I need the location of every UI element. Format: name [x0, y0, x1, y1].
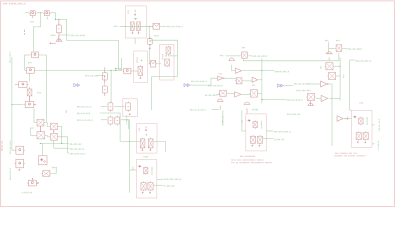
- caption line3: [231, 162, 271, 163]
- wire: [228, 92, 235, 94]
- net label TELCA_GN_PA_L: [10, 141, 11, 154]
- wire: [262, 99, 286, 101]
- inverter U2B: [321, 95, 328, 101]
- wire: [337, 75, 340, 77]
- wire: [53, 130, 55, 134]
- wire: [259, 79, 262, 81]
- resistor R7: [115, 116, 120, 126]
- transducer K4: [25, 68, 35, 74]
- capacitor C15: [235, 78, 243, 84]
- wire: [34, 109, 36, 123]
- module outline LED RECEIVER 3: [352, 110, 373, 147]
- capacitor C14: [165, 59, 170, 67]
- net label L_TEL_RE: [274, 139, 284, 140]
- wire: [249, 55, 252, 57]
- transistor Q1: [130, 22, 134, 32]
- wire: [121, 120, 128, 129]
- wire: net stubs to labels: [40, 142, 69, 144]
- wire: [153, 184, 163, 186]
- label TEL_TO_SELF: [71, 35, 85, 36]
- wire: [149, 48, 150, 64]
- wire: [261, 58, 263, 103]
- coupler X1 envelope: [152, 24, 161, 30]
- net label TRL: [345, 118, 348, 119]
- module port flag: [74, 84, 80, 87]
- supply bell: [308, 103, 314, 106]
- net label L_TEL_RE: [164, 185, 174, 186]
- transducer K5: [24, 102, 35, 108]
- net label TEL_TL_WKL_L: [294, 83, 310, 84]
- wire: [45, 123, 49, 127]
- wire: [42, 143, 44, 155]
- antenna mark: [134, 10, 136, 16]
- supply bell: [326, 52, 333, 55]
- wire: [46, 136, 49, 137]
- wire: [116, 69, 122, 71]
- transducer K3: [30, 52, 40, 58]
- resistor R3: [58, 19, 60, 25]
- net label TEL_TL_SELF: [347, 48, 361, 49]
- resistor R10: [148, 37, 153, 46]
- net label PFGB: [144, 156, 149, 157]
- net name vertical: [379, 119, 380, 131]
- inverter U1D: [235, 92, 241, 97]
- wire: [101, 105, 107, 107]
- wire: [349, 60, 351, 110]
- wire: [12, 104, 14, 150]
- wire: [51, 13, 122, 70]
- net label CON: [336, 40, 339, 41]
- resistor R6: [108, 116, 113, 126]
- wire: [129, 120, 131, 193]
- wire: [196, 78, 218, 85]
- wire: [153, 141, 165, 152]
- wire: [232, 65, 236, 71]
- pin header outline: [123, 99, 138, 117]
- wire: [328, 84, 332, 116]
- module outline SPEAKER DRIVER: [125, 6, 146, 38]
- net label TELCA_PA_L: [10, 168, 11, 180]
- wire: [25, 12, 29, 14]
- wire: [316, 97, 321, 99]
- module port flag: [277, 84, 283, 87]
- wire: [329, 97, 340, 99]
- wire: [226, 55, 241, 57]
- supply bell: [244, 102, 251, 105]
- wire: [148, 26, 150, 38]
- net label TEL_E_A_HH_L: [77, 119, 93, 120]
- capacitor C9: [49, 123, 58, 130]
- inverter U1A: [235, 68, 241, 73]
- wire: [110, 71, 112, 103]
- wire: [100, 113, 120, 141]
- net label TEL_TL_SELF: [253, 55, 267, 56]
- label S8B: [114, 26, 117, 27]
- coupler X2 envelope: [149, 61, 157, 67]
- wire: [372, 143, 375, 145]
- wire: [40, 55, 46, 123]
- transducer K7: [15, 159, 25, 168]
- wire: [133, 70, 139, 72]
- wire: [344, 118, 352, 120]
- frame column text: [1, 141, 2, 151]
- net label SEL: [220, 55, 223, 56]
- net label TEL_TL_WKL_L: [191, 81, 207, 82]
- inverter U1C: [252, 77, 258, 82]
- module text: [139, 128, 140, 131]
- wire: [263, 138, 274, 140]
- wire: [284, 85, 293, 87]
- wire: [11, 57, 13, 104]
- resistor R5: [126, 102, 131, 112]
- label CON: [242, 47, 245, 48]
- net label TEL_TL_WKL: [85, 75, 98, 76]
- net label TEL_AF_WT_A: [70, 148, 84, 149]
- label S8B: [37, 92, 40, 93]
- wire: [350, 59, 355, 61]
- wire: [29, 96, 31, 102]
- transducer K2: [43, 11, 51, 16]
- net label TEL_CA_ALW: [77, 113, 90, 114]
- supply bell: [228, 58, 235, 61]
- wire: [266, 130, 273, 132]
- wire: [130, 169, 137, 171]
- caption LED RECEIVER: [240, 156, 255, 157]
- module outline LED RECEIVER 1: [136, 160, 157, 199]
- wire: [259, 92, 262, 94]
- wire: [29, 73, 31, 82]
- module title text: [128, 10, 129, 13]
- wire: [59, 126, 62, 143]
- label STOB: [51, 35, 56, 36]
- capacitor C8: [36, 119, 45, 126]
- wire: [128, 119, 129, 121]
- capacitor C7: [41, 171, 51, 177]
- wire: [31, 178, 33, 180]
- wire: [343, 48, 347, 50]
- transistor Q4: [148, 138, 153, 149]
- net label TEL_DF_HH vertical: [66, 110, 67, 113]
- net label TELCA_DER_A: [275, 71, 289, 72]
- net label TEL_DF_HN_L: [208, 85, 222, 86]
- wire: [157, 63, 161, 65]
- label S8B: [30, 21, 33, 22]
- junction: [146, 134, 147, 135]
- inverter U3A: [337, 116, 343, 122]
- wire: [168, 55, 178, 57]
- net label TEL_TLE_WT_A: [70, 153, 86, 154]
- wire: [307, 83, 321, 85]
- net label TEL_AF_WKL_A: [287, 99, 303, 100]
- label a_TEL_GN: [22, 192, 32, 193]
- connector X3: [241, 52, 249, 58]
- label THB: [219, 73, 222, 74]
- transducer K6: [15, 146, 25, 154]
- wire: [242, 93, 251, 95]
- net label TEL_REV_SEL: [296, 90, 310, 91]
- wire: [339, 58, 341, 101]
- capacitor C10: [36, 132, 46, 139]
- capacitor C16: [218, 90, 227, 96]
- wire: [243, 58, 339, 61]
- wire: [242, 70, 274, 72]
- wire: [39, 126, 41, 132]
- microphone M1: [17, 82, 28, 88]
- wire: [161, 25, 166, 27]
- label N2GB: [52, 167, 57, 168]
- transistor Q3: [140, 138, 145, 149]
- resistor R4: [108, 102, 113, 112]
- capacitor C4: [29, 87, 31, 89]
- capacitor C12: [138, 65, 143, 76]
- net label GND: [325, 40, 328, 41]
- module port flag: [184, 84, 190, 87]
- module text PULSE: [162, 54, 163, 59]
- wire: [151, 77, 153, 110]
- wire: [335, 65, 341, 67]
- label S8B: [28, 62, 31, 63]
- caption line1: [335, 153, 357, 154]
- wire: [338, 53, 340, 61]
- wire: [120, 25, 153, 27]
- wire: [46, 17, 48, 20]
- wire: [191, 84, 196, 86]
- wire: [114, 105, 124, 107]
- wire: [59, 137, 68, 153]
- wire: [31, 135, 36, 137]
- inverter U1B: [218, 76, 225, 81]
- wire: [134, 38, 136, 44]
- wire: [350, 109, 352, 111]
- net label TEL_CA_DEL_P: [355, 60, 371, 61]
- wire: [331, 116, 333, 146]
- wire: [120, 140, 140, 142]
- wire: [59, 33, 70, 36]
- transducer K1: [29, 11, 37, 16]
- transducer K8: [27, 180, 37, 186]
- capacitor C17: [249, 90, 258, 97]
- capacitor C18: [325, 63, 335, 70]
- buzzer LS1: [58, 35, 60, 41]
- wire: [328, 42, 330, 54]
- net label TEL_TO_GER_W: [167, 26, 183, 27]
- wire: [152, 76, 178, 78]
- wire: [37, 12, 43, 14]
- wire: [12, 103, 24, 105]
- caption line2: [335, 155, 366, 156]
- wire: [224, 77, 236, 79]
- module text PULSE: [137, 57, 138, 62]
- connector X5: [306, 94, 316, 101]
- wire: [242, 110, 246, 131]
- wire: [33, 13, 40, 52]
- resistor R8: [104, 67, 106, 71]
- net label TE_CA_ALW: [205, 95, 217, 96]
- caption line2: [231, 159, 263, 160]
- wire: [157, 178, 164, 180]
- wire: [372, 124, 375, 126]
- title text TELCA_ALW_P: [3, 3, 25, 5]
- label PULSE: [252, 109, 258, 110]
- wire: [101, 119, 107, 121]
- junction: [135, 18, 136, 19]
- module outline PULSE A: [134, 51, 148, 82]
- wire: [216, 94, 219, 96]
- module text LED: [132, 167, 133, 170]
- wire: [36, 70, 122, 72]
- capacitor C11: [49, 133, 58, 140]
- wire: [177, 62, 179, 77]
- module outline LED RECEIVER 2: [246, 114, 266, 151]
- resistor R9: [102, 85, 107, 95]
- inverter U2A: [321, 81, 329, 87]
- net label TEL_REV_SEL_P: [274, 131, 291, 132]
- transducer K9: [123, 68, 133, 74]
- module outline LED TRANSMITTER: [137, 124, 157, 154]
- arrow marks: [145, 126, 147, 131]
- wire: [222, 111, 224, 126]
- net name vertical: [222, 116, 223, 125]
- net label TEL_SLE_HH: [287, 114, 300, 115]
- transistor Q2: [137, 22, 141, 32]
- net label TEL_E_A_HH_L: [190, 109, 206, 110]
- label RFB: [252, 85, 255, 86]
- wire: [329, 48, 335, 50]
- wire: [51, 167, 56, 174]
- pin stub: [24, 30, 26, 35]
- led D2: [39, 156, 48, 165]
- net label TEL_DF_HH_L: [77, 106, 91, 107]
- wire: [149, 40, 177, 62]
- capacitor C19: [327, 72, 337, 79]
- wire: [244, 80, 253, 82]
- net label LL_TEL_WT: [70, 143, 82, 144]
- supply bell: [217, 99, 224, 102]
- wire: [24, 54, 29, 56]
- connector X4: [335, 45, 343, 52]
- net name vertical: [378, 141, 379, 150]
- wire: [212, 109, 220, 111]
- net label TLR vertical: [343, 75, 344, 78]
- label PLB: [360, 102, 363, 103]
- net name vertical: [9, 52, 10, 63]
- wire: [121, 58, 123, 71]
- net name vertical A_TEL_GN: [126, 115, 127, 124]
- net label WKL vertical: [320, 66, 321, 69]
- module text LED: [241, 120, 242, 123]
- capacitor C13: [166, 46, 171, 55]
- label STOB: [154, 35, 159, 36]
- module text LED: [347, 117, 348, 120]
- net label TEL_REV_SEL_P: [164, 179, 181, 180]
- module outline PULSE B: [160, 44, 175, 80]
- wire: [97, 75, 105, 80]
